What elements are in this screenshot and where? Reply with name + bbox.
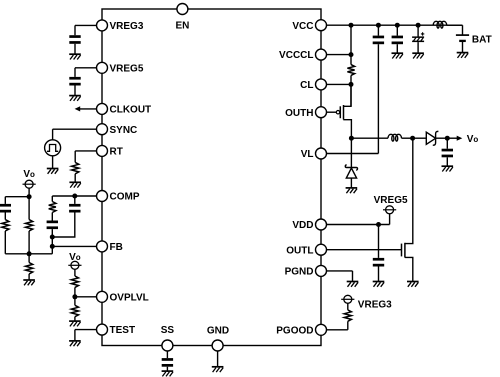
svg-text:RT: RT bbox=[110, 147, 123, 158]
svg-text:PGOOD: PGOOD bbox=[276, 325, 313, 336]
svg-text:COMP: COMP bbox=[110, 192, 140, 203]
svg-text:VREG3: VREG3 bbox=[110, 21, 144, 32]
svg-text:Vo: Vo bbox=[23, 169, 35, 180]
svg-text:OUTL: OUTL bbox=[286, 245, 313, 256]
svg-text:SS: SS bbox=[161, 325, 175, 336]
svg-text:VREG3: VREG3 bbox=[358, 300, 392, 311]
svg-text:OUTH: OUTH bbox=[285, 108, 313, 119]
svg-text:VREG5: VREG5 bbox=[110, 63, 144, 74]
svg-text:SYNC: SYNC bbox=[110, 125, 138, 136]
svg-text:Vo: Vo bbox=[467, 134, 479, 145]
svg-text:CL: CL bbox=[300, 80, 313, 91]
svg-text:PGND: PGND bbox=[285, 267, 314, 278]
svg-text:OVPLVL: OVPLVL bbox=[110, 292, 149, 303]
svg-text:EN: EN bbox=[175, 21, 189, 32]
svg-text:VCCCL: VCCCL bbox=[279, 50, 313, 61]
svg-text:VREG5: VREG5 bbox=[374, 195, 408, 206]
svg-text:VDD: VDD bbox=[292, 220, 313, 231]
svg-text:VL: VL bbox=[301, 149, 314, 160]
svg-text:BAT: BAT bbox=[472, 34, 492, 45]
svg-text:TEST: TEST bbox=[110, 325, 136, 336]
svg-text:CLKOUT: CLKOUT bbox=[110, 105, 152, 116]
svg-text:GND: GND bbox=[207, 325, 229, 336]
svg-text:VCC: VCC bbox=[292, 21, 313, 32]
svg-text:FB: FB bbox=[110, 242, 123, 253]
